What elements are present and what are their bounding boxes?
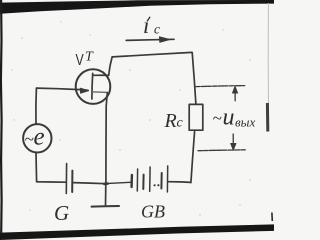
wire: right vertical upper (resistor to top corner) xyxy=(192,53,196,105)
label i_c xyxy=(143,13,160,38)
transistor VT gate arrowhead xyxy=(80,88,88,93)
node: ground junction xyxy=(104,182,107,185)
svg-text:c: c xyxy=(154,22,160,37)
current arrow i_c xyxy=(126,39,174,40)
battery cell G: long plate xyxy=(65,164,67,194)
label ~e inside source xyxy=(25,124,45,151)
transistor VT circle xyxy=(76,69,111,104)
arrow up at upper measurement line xyxy=(234,89,236,101)
transistor VT channel bar xyxy=(91,73,94,99)
wire: below source e down to bottom-left corner xyxy=(35,153,38,182)
svg-text:e: e xyxy=(34,124,45,151)
ground: vertical stub xyxy=(105,184,107,206)
battery GB plate 3 (short) xyxy=(142,175,144,189)
svg-text:c: c xyxy=(177,116,184,131)
svg-text:~: ~ xyxy=(213,109,222,128)
svg-text:GB: GB xyxy=(141,202,165,222)
source G circle xyxy=(23,124,51,152)
battery cell G: short plate xyxy=(71,171,73,192)
wire: top horizontal xyxy=(112,52,192,57)
battery GB plate 2 (long) xyxy=(136,169,138,191)
arrow down at lower measurement line xyxy=(232,134,234,147)
measurement line upper (output tap) xyxy=(196,86,245,87)
wire: left vertical (corner to source e) xyxy=(35,88,38,124)
battery GB plate 5 (short) xyxy=(160,173,162,189)
label VT xyxy=(76,50,95,70)
svg-text:T: T xyxy=(85,50,94,65)
wire: ground junction to battery GB xyxy=(106,182,131,183)
current arrow i_c head xyxy=(160,37,170,43)
transistor VT drain tap xyxy=(93,74,108,76)
svg-text:вых: вых xyxy=(235,115,255,130)
transistor VT source tap xyxy=(92,91,107,94)
wire: bottom left horizontal to cell G xyxy=(37,181,66,183)
label i_c accent xyxy=(147,17,150,21)
battery GB plate 4 (long) xyxy=(149,167,151,191)
wire: right vertical lower (corner up to resistor) xyxy=(191,131,195,182)
svg-text:~: ~ xyxy=(25,130,34,149)
svg-text:ı: ı xyxy=(143,13,149,38)
wire: source lead down from VT to ground junction xyxy=(106,93,107,184)
wire: gate horizontal (node corner to VT) xyxy=(37,88,89,90)
measurement line lower (output tap) xyxy=(198,149,246,152)
ground: bar xyxy=(92,205,120,208)
battery GB plate 1 (short) xyxy=(130,175,133,187)
resistor Rc body xyxy=(189,104,203,130)
wire: battery GB to bottom right corner xyxy=(168,181,190,184)
svg-text:V: V xyxy=(76,52,84,69)
label Rc xyxy=(164,110,184,132)
wire: cell G to ground junction xyxy=(73,183,105,184)
battery GB plate 6 (long) xyxy=(166,166,168,192)
svg-text:G: G xyxy=(54,201,69,225)
arrow up head xyxy=(233,86,238,93)
arrow down head xyxy=(231,144,236,151)
svg-text:u: u xyxy=(223,105,235,131)
svg-text:R: R xyxy=(164,110,177,132)
battery GB continuation dots xyxy=(154,184,160,186)
wire: drain lead up from VT xyxy=(109,57,112,75)
label ~u_out xyxy=(213,105,256,131)
